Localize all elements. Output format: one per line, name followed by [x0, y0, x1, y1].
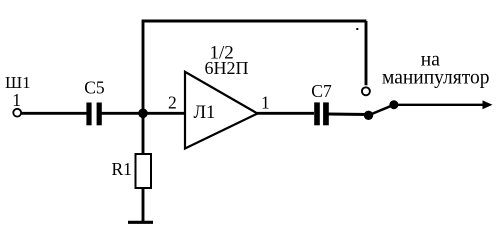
wire: terminal to C5: [21, 112, 87, 115]
wire: C5 to triangle input (through junction): [102, 112, 186, 115]
svg-text:R1: R1: [112, 159, 132, 179]
svg-text:1: 1: [12, 90, 21, 110]
resistor R1: [136, 154, 152, 188]
ground: [128, 221, 153, 224]
connector Ш1 terminal circle: [13, 109, 21, 117]
svg-text:манипулятор: манипулятор: [382, 68, 490, 89]
svg-text:C5: C5: [84, 77, 105, 97]
svg-text:2: 2: [168, 93, 177, 113]
wire: C7 to switch pole: [328, 113, 368, 116]
svg-text:Л1: Л1: [194, 103, 216, 123]
wire: feedback vertical right down to switch contact: [365, 21, 368, 85]
wire: R1 to ground: [142, 188, 145, 222]
wire: feedback vertical left: [142, 21, 145, 113]
wire: output arrow line: [394, 104, 486, 106]
capacitor C7: [314, 102, 329, 125]
switch throw dot: [389, 100, 398, 109]
switch lever wire: [369, 105, 394, 116]
stray ink dot artifact: [356, 28, 358, 30]
op-amp (tube half) Л1 triangle: [185, 72, 258, 149]
switch pole dot: [364, 111, 373, 120]
switch open contact circle: [362, 87, 370, 95]
arrowhead: [483, 100, 493, 109]
svg-text:6Н2П: 6Н2П: [205, 58, 249, 78]
wire: feedback horizontal top: [142, 20, 367, 23]
node junction dot: [138, 109, 148, 119]
wire: triangle output to C7: [257, 112, 314, 115]
capacitor C5: [86, 103, 101, 126]
wire: junction down to R1: [142, 113, 145, 155]
svg-text:C7: C7: [311, 81, 332, 101]
svg-text:1: 1: [261, 93, 270, 113]
